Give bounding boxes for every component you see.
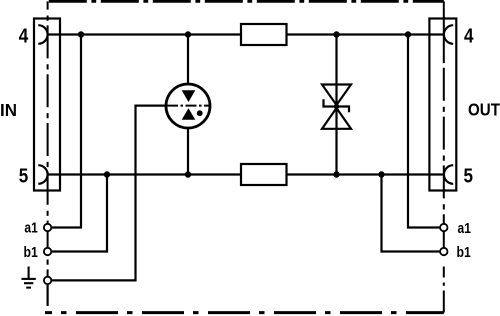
gas discharge tube F1 body — [166, 84, 210, 128]
junction line5/b1-right — [378, 171, 384, 177]
terminal a1 left — [44, 224, 51, 231]
svg-text:a1: a1 — [458, 221, 471, 237]
wire line 5 (bottom) — [48, 173, 444, 175]
earth wire from ground terminal to gas discharge tube centre electrode — [51, 106, 166, 281]
svg-text:5: 5 — [19, 166, 29, 188]
wire from a1 (left) up to line 4 — [51, 35, 81, 228]
suppressor diode D1 zener bar — [324, 99, 350, 112]
enclosure boundary top edge (dash-dot) — [48, 0, 444, 3]
terminal contact 4 IN — [38, 25, 47, 44]
suppressor diode D1 upper triangle — [322, 85, 351, 106]
earth lead below ground terminal — [46, 284, 48, 306]
resistor R1 (line 4, decoupling) — [241, 24, 287, 45]
wire line 4 (top) — [48, 33, 444, 35]
IN terminal block — [34, 19, 60, 191]
junction line4/a1-left — [78, 31, 84, 37]
terminal b1 right — [440, 248, 447, 255]
OUT terminal block — [429, 19, 456, 191]
svg-text:4: 4 — [464, 26, 474, 48]
wire from b1 (left) up to line 5 — [51, 175, 107, 252]
suppressor diode D1 lower triangle — [322, 108, 351, 129]
terminal contact 5 IN — [38, 165, 47, 184]
terminal contact 4 OUT — [444, 25, 453, 44]
gas discharge tube F1 gas-filled indicator dot — [197, 110, 203, 116]
junction line5/gas discharge tube — [185, 171, 191, 177]
junction line5/suppressor diode — [333, 171, 339, 177]
junction line4/a1-right — [405, 31, 411, 37]
terminal a1 right — [440, 224, 447, 231]
junction line5/b1-left — [104, 171, 110, 177]
wire from b1 (right) up to line 5 — [382, 175, 441, 252]
suppressor diode D1 centre junction — [334, 104, 339, 109]
enclosure boundary bottom edge (dash-dot) — [45, 311, 444, 314]
suppressor diode D1 vertical lead — [335, 35, 337, 175]
svg-text:b1: b1 — [24, 245, 38, 261]
terminal ground left — [44, 277, 51, 284]
svg-text:a1: a1 — [24, 221, 37, 237]
resistor R2 (line 5, decoupling) — [241, 164, 287, 185]
ground symbol — [22, 267, 36, 288]
svg-text:b1: b1 — [457, 245, 471, 261]
terminal b1 left — [44, 248, 51, 255]
gas discharge tube F1 lower arrow — [182, 108, 196, 120]
gas discharge tube F1 vertical lead — [187, 35, 189, 175]
svg-text:4: 4 — [19, 26, 29, 48]
gas discharge tube F1 centre electrode line (dash-dot) — [167, 105, 209, 107]
svg-text:OUT: OUT — [468, 100, 500, 120]
gas discharge tube F1 upper arrow — [182, 90, 196, 102]
svg-text:5: 5 — [463, 166, 473, 188]
junction line4/suppressor diode — [333, 31, 339, 37]
enclosure boundary left edge / IN terminal centre line (dash-dot) — [47, 1, 49, 284]
enclosure boundary right edge / OUT terminal centre line (dash-dot) — [443, 1, 445, 58]
svg-text:IN: IN — [0, 100, 17, 120]
wire from a1 (right) up to line 4 — [408, 35, 440, 228]
terminal contact 5 OUT — [444, 165, 453, 184]
junction line4/gas discharge tube — [185, 31, 191, 37]
